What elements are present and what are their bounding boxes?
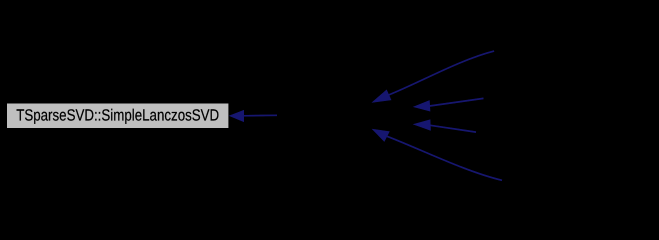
edge arrow 1 (from top-right caller) — [373, 51, 494, 102]
wire — [389, 51, 495, 95]
edge: middle node -> TSparseSVD::SimpleLanczosSVD — [230, 111, 277, 122]
wire — [430, 98, 484, 106]
node TSparseSVD::SimpleLanczosSVD (current node, grey fill) — [7, 103, 229, 129]
arrowhead — [373, 90, 391, 102]
wire — [243, 114, 277, 117]
arrowhead — [414, 101, 430, 111]
edge arrow 3 (lower horizontal caller) — [414, 120, 476, 132]
svg-text:TSparseSVD::SimpleLanczosSVD: TSparseSVD::SimpleLanczosSVD — [16, 106, 219, 124]
arrowhead — [230, 111, 244, 122]
edge arrow 2 (upper horizontal caller) — [414, 98, 483, 111]
arrowhead — [373, 130, 389, 142]
edge arrow 4 (from bottom-right caller, curved) — [373, 130, 502, 181]
arrowhead — [414, 120, 430, 130]
wire — [430, 125, 476, 132]
wire — [387, 136, 502, 180]
